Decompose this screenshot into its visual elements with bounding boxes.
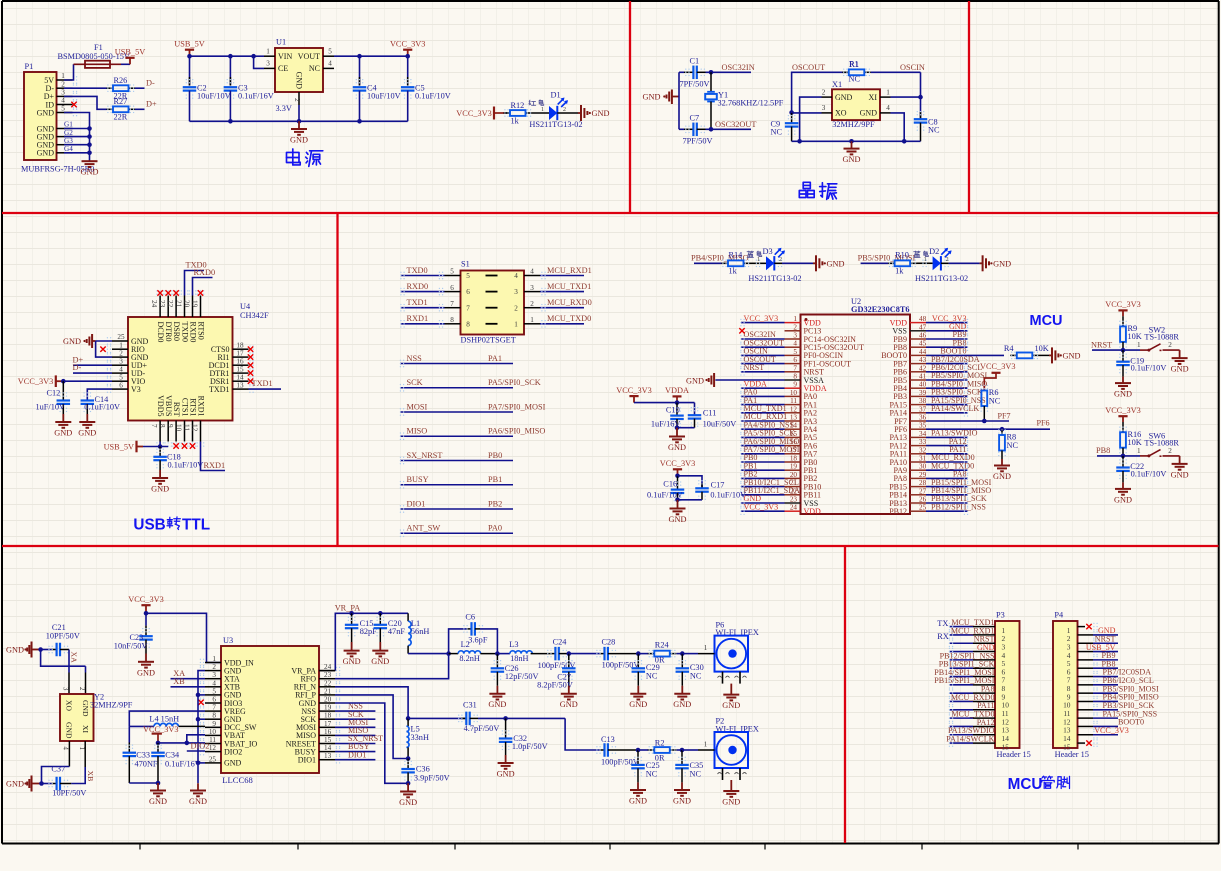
- svg-text:MCU_TXD0: MCU_TXD0: [547, 314, 591, 323]
- U3 pin 3 XTA: [205, 678, 221, 680]
- U2 pin 45 PB8: [910, 346, 926, 348]
- svg-text:12pF/50V: 12pF/50V: [505, 672, 539, 681]
- net DIO2 (U3): [187, 750, 205, 752]
- wire C33/C34 gnd: [129, 782, 158, 784]
- svg-text:VBUS: VBUS: [164, 395, 173, 416]
- svg-text:4: 4: [212, 679, 216, 687]
- net D+ (U4): [73, 364, 112, 366]
- svg-text:0.1uF/10V: 0.1uF/10V: [415, 92, 451, 101]
- resistor R6 NC body: [981, 391, 987, 407]
- MCU U2 GD32E230C8T6: [801, 315, 911, 515]
- wire C21 to Y2 XO: [68, 650, 70, 673]
- svg-text:5: 5: [466, 272, 470, 280]
- svg-text:32: 32: [919, 446, 927, 454]
- LED D2 blue HS211TG13-02: [917, 262, 933, 264]
- net PB15/SPI1_MOSI (U2 pin 28): [926, 486, 968, 488]
- wire P1 GND pins: [64, 113, 90, 161]
- svg-text:GND: GND: [137, 668, 155, 677]
- ground for C16/C17: [677, 500, 679, 509]
- svg-text:2: 2: [119, 349, 123, 357]
- net PF6 and resistor R8 NC: [926, 428, 1050, 430]
- ground for C19: [1122, 377, 1124, 384]
- U2 pin 30 PA9: [910, 469, 926, 471]
- svg-text:C33: C33: [136, 750, 150, 759]
- svg-text:MCU: MCU: [1008, 776, 1043, 793]
- svg-text:GND: GND: [860, 109, 878, 118]
- ground for R8: [1001, 459, 1003, 466]
- U3 pin 25 GND: [205, 762, 221, 764]
- svg-text:1uF/10V: 1uF/10V: [36, 403, 66, 412]
- svg-text:48: 48: [919, 315, 927, 323]
- svg-text:33nH: 33nH: [411, 733, 429, 742]
- net VCC_3V3 (U2 pin 24): [741, 510, 785, 512]
- resistor R14 1k: [722, 262, 729, 264]
- svg-text:10K: 10K: [1035, 344, 1049, 353]
- svg-text:VCC_3V3: VCC_3V3: [1105, 406, 1141, 415]
- svg-text:9: 9: [793, 381, 797, 389]
- ground for C33/C34: [157, 783, 159, 791]
- net GND (U2 pin 47): [926, 330, 968, 332]
- U2 pin 38 PA15: [910, 404, 926, 406]
- U2 pin 26 PB13: [910, 502, 926, 504]
- no-connect U2 pin2 PC13: [739, 328, 744, 333]
- capacitor C19 0.1uF/10V: [1122, 350, 1124, 361]
- U2 pin 37 PA14: [910, 412, 926, 414]
- net PA0 (U2 pin 10): [741, 395, 785, 397]
- net PB7/I2C0SDA (U2 pin 43): [926, 363, 968, 365]
- U3 pin 21 RFI_P: [319, 694, 335, 696]
- net tie MOSI - PA7/SPI0_MOSI: [400, 411, 513, 413]
- net OSC32IN (U2 pin 3): [741, 338, 785, 340]
- svg-text:G1: G1: [64, 121, 73, 129]
- svg-text:PB8: PB8: [1096, 446, 1110, 455]
- svg-text:8: 8: [466, 320, 470, 328]
- svg-text:1: 1: [704, 741, 708, 749]
- svg-text:24: 24: [790, 504, 798, 512]
- ground for R4: [1039, 354, 1049, 356]
- svg-text:GND: GND: [668, 443, 686, 452]
- svg-text:3: 3: [266, 60, 270, 68]
- svg-text:3: 3: [822, 104, 826, 112]
- svg-text:3.6pF: 3.6pF: [468, 635, 488, 644]
- svg-text:22R: 22R: [114, 113, 128, 122]
- svg-text:GND: GND: [1171, 365, 1189, 374]
- power port USB_5V (rail): [189, 50, 191, 57]
- svg-text:2: 2: [1168, 447, 1172, 455]
- svg-text:0.1uF/10V: 0.1uF/10V: [84, 403, 120, 412]
- svg-text:OSC32IN: OSC32IN: [722, 63, 755, 72]
- net OSCOUT (U2 pin 6): [741, 363, 785, 365]
- svg-text:MOSI: MOSI: [407, 402, 428, 411]
- svg-text:4: 4: [61, 97, 65, 105]
- svg-text:7: 7: [466, 304, 470, 312]
- svg-text:15: 15: [324, 736, 332, 744]
- svg-text:DSHP02TSGET: DSHP02TSGET: [461, 336, 516, 345]
- U2 pin 3 PC14-OSC32IN: [785, 338, 801, 340]
- svg-text:PB0: PB0: [488, 451, 502, 460]
- capacitor C24 100pF/50V: [551, 653, 556, 655]
- svg-text:7PF/50V: 7PF/50V: [680, 79, 710, 88]
- ground for C22: [1122, 482, 1124, 489]
- header P3 Header 15: [995, 621, 1020, 748]
- svg-text:15: 15: [1002, 742, 1010, 751]
- wire P1 D- to R26: [64, 87, 107, 89]
- svg-text:PB2: PB2: [488, 499, 502, 508]
- svg-text:17: 17: [324, 720, 332, 728]
- svg-text:G2: G2: [64, 129, 73, 137]
- svg-text:2: 2: [514, 304, 518, 312]
- svg-text:GND: GND: [488, 700, 506, 709]
- svg-text:GND: GND: [6, 780, 24, 789]
- no-connect marks U4 top pins: [157, 290, 162, 295]
- svg-text:8.2nH: 8.2nH: [459, 654, 480, 663]
- U1 GND pin: [298, 92, 300, 105]
- net OSCIN (U2 pin 5): [741, 354, 785, 356]
- ground for C18: [159, 470, 161, 478]
- svg-text:U1: U1: [276, 38, 286, 47]
- svg-text:PB12: PB12: [889, 507, 907, 516]
- U3 pin 6 DIO3: [205, 702, 221, 704]
- U2 pin 35 PF6: [910, 428, 926, 430]
- ground for VDDA filter: [676, 428, 678, 437]
- U2 pin 16 PA6: [785, 445, 801, 447]
- svg-text:19: 19: [790, 463, 798, 471]
- U2 pin 44 BOOT0: [910, 354, 926, 356]
- power port VCC_3V3 (C16/C17): [677, 469, 679, 476]
- svg-text:1: 1: [61, 72, 65, 80]
- svg-text:VCC_3V3: VCC_3V3: [744, 314, 779, 323]
- U2 pin 31 PA10: [910, 461, 926, 463]
- svg-text:3.9pF/50V: 3.9pF/50V: [414, 773, 450, 782]
- ground for U2 VSSA: [715, 379, 784, 381]
- svg-text:D2: D2: [929, 247, 939, 256]
- ground for P1: [89, 160, 91, 163]
- svg-text:D3: D3: [763, 247, 773, 256]
- U3 pin 23 RFO: [319, 678, 335, 680]
- svg-text:PA6/SPI0_MISO: PA6/SPI0_MISO: [488, 427, 545, 436]
- wire VBAT/VBAT_IO: [158, 742, 205, 744]
- svg-text:GND: GND: [295, 72, 304, 90]
- svg-text:NC: NC: [646, 671, 658, 680]
- resistor R27 22R: [107, 108, 114, 110]
- svg-text:NC: NC: [849, 74, 861, 83]
- net VCC_3V3 (U2 pin 48): [926, 322, 968, 324]
- net VDDA (U2 pin 9): [741, 387, 785, 389]
- ground for C14: [86, 414, 88, 422]
- capacitor C33 470NF: [128, 726, 130, 742]
- net XB (U3): [171, 686, 206, 688]
- svg-text:GND: GND: [669, 515, 687, 524]
- svg-text:8: 8: [212, 712, 216, 720]
- svg-text:VOUT: VOUT: [298, 52, 320, 61]
- svg-text:XI: XI: [81, 725, 90, 733]
- svg-text:GND: GND: [151, 485, 169, 494]
- U2 pin 21 PB10: [785, 486, 801, 488]
- svg-text:BOOT0: BOOT0: [940, 347, 966, 356]
- svg-text:6: 6: [793, 356, 797, 364]
- no-connect marks U4 right pins: [248, 347, 253, 352]
- svg-text:TTL: TTL: [182, 517, 210, 534]
- svg-text:F1: F1: [94, 43, 103, 52]
- svg-text:R12: R12: [511, 101, 525, 110]
- svg-text:28: 28: [919, 479, 927, 487]
- capacitor C5 0.1uF/10V: [407, 56, 409, 85]
- svg-text:1: 1: [757, 257, 760, 263]
- svg-text:32.768KHZ/12.5PF: 32.768KHZ/12.5PF: [718, 98, 784, 107]
- resistor R4 10K: [1010, 354, 1017, 356]
- svg-text:39: 39: [919, 389, 927, 397]
- net PB6/I2C0_SCL (U2 pin 42): [926, 371, 968, 373]
- svg-text:10uF/50V: 10uF/50V: [703, 420, 737, 429]
- net tie SX_NRST - PB0: [400, 460, 513, 462]
- U2 pin 32 PA11: [910, 453, 926, 455]
- U2 pin 2 PC13: [785, 330, 801, 332]
- svg-text:C24: C24: [553, 638, 568, 647]
- svg-text:GND: GND: [1171, 470, 1189, 479]
- svg-text:4: 4: [62, 747, 69, 751]
- svg-text:2: 2: [793, 323, 797, 331]
- svg-text:PF6: PF6: [1037, 419, 1050, 428]
- U2 pin 25 PB12: [910, 510, 926, 512]
- net PB4/SPI0_MISO: [694, 262, 722, 264]
- svg-text:16: 16: [236, 357, 244, 365]
- svg-text:9: 9: [212, 720, 216, 728]
- U3 pin 24 VR_PA: [319, 670, 335, 672]
- svg-text:4: 4: [530, 268, 534, 276]
- svg-text:MCU: MCU: [1030, 313, 1063, 329]
- no-connect U4 pin1: [100, 347, 105, 352]
- net tie BUSY - PB1: [400, 484, 513, 486]
- svg-text:17: 17: [236, 349, 244, 357]
- svg-text:4: 4: [886, 104, 890, 112]
- U2 pin 22 PB11: [785, 494, 801, 496]
- svg-text:18: 18: [236, 341, 244, 349]
- net PB11/I2C1_SDA (U2 pin 22): [741, 494, 785, 496]
- U2 pin 29 PA8: [910, 477, 926, 479]
- P3 pin 6 PB13/SPI1_SCK: [950, 667, 974, 669]
- svg-text:GND: GND: [65, 722, 74, 739]
- svg-text:PB12/SPI1_NSS: PB12/SPI1_NSS: [931, 502, 986, 511]
- capacitor C36 3.9pF/50V: [406, 756, 411, 761]
- P3 pin 4 GND: [950, 651, 974, 653]
- P3 pin 13 PA12: [950, 725, 974, 727]
- capacitor C4 10uF/10V: [359, 56, 361, 85]
- net PA11 (U2 pin 32): [926, 453, 968, 455]
- U2 pin 28 PB15: [910, 486, 926, 488]
- wire 32k left rail: [678, 72, 680, 129]
- net tie SCK - PA5/SPI0_SCK: [400, 387, 513, 389]
- net TXD0 (U4): [185, 271, 205, 296]
- power port VCC_3V3 (U4 VIO): [55, 375, 57, 387]
- bottom rail: [190, 120, 408, 122]
- svg-text:7: 7: [212, 704, 216, 712]
- svg-text:15: 15: [236, 365, 244, 373]
- svg-text:3: 3: [530, 284, 534, 292]
- wire R12 to D1: [532, 112, 549, 114]
- crystal Y1 32.768KHZ: [710, 72, 712, 91]
- svg-text:1: 1: [514, 320, 518, 328]
- svg-text:4: 4: [793, 340, 797, 348]
- svg-text:RTS1: RTS1: [188, 398, 197, 416]
- svg-text:0.1uF/10V: 0.1uF/10V: [1131, 470, 1167, 479]
- svg-text:1: 1: [886, 88, 890, 96]
- net NSS (U3): [335, 710, 375, 712]
- wire X1 pin4 to gnd rail: [891, 113, 905, 141]
- U2 pin 36 PF7: [910, 420, 926, 422]
- U3 pin 5 GND: [205, 694, 221, 696]
- U2 pin 41 PB5: [910, 379, 926, 381]
- svg-text:XO: XO: [835, 109, 847, 118]
- net PB3/SPI0_SCK (U2 pin 39): [926, 395, 968, 397]
- svg-text:29: 29: [919, 471, 927, 479]
- svg-text:PA5/SPI0_SCK: PA5/SPI0_SCK: [488, 378, 541, 387]
- svg-text:GND: GND: [6, 646, 24, 655]
- svg-text:RXD1: RXD1: [204, 461, 226, 470]
- svg-text:GND: GND: [686, 376, 704, 385]
- U2 pin 34 PA13: [910, 436, 926, 438]
- svg-text:R10: R10: [895, 250, 909, 259]
- net PB8 (U2 pin 45): [926, 346, 968, 348]
- svg-text:GND: GND: [592, 109, 610, 118]
- U2 pin 13 PA3: [785, 420, 801, 422]
- svg-text:0.1uF/10V: 0.1uF/10V: [168, 461, 204, 470]
- svg-text:2: 2: [212, 663, 216, 671]
- svg-text:L4 15nH: L4 15nH: [149, 715, 179, 724]
- svg-text:R2: R2: [655, 738, 665, 747]
- net NRST: [1092, 349, 1123, 351]
- svg-text:3: 3: [62, 687, 69, 691]
- net PB5/SPI0_MOSI: [861, 262, 889, 264]
- U3 pin 12 DIO2: [205, 751, 221, 753]
- U3 pin 8 GND: [205, 718, 221, 720]
- svg-text:TXD1: TXD1: [209, 385, 229, 394]
- svg-text:GND: GND: [497, 770, 515, 779]
- U3 pin 19 NSS: [319, 710, 335, 712]
- P3 pin 11 PA11: [950, 709, 974, 711]
- svg-text:1: 1: [266, 47, 270, 55]
- net MCU_RXD0 (U2 pin 31): [926, 461, 968, 463]
- svg-text:USB_5V: USB_5V: [174, 40, 204, 49]
- title 晶振 (Crystal): [803, 182, 810, 188]
- LED D3 blue HS211TG13-02: [750, 262, 766, 264]
- svg-text:3: 3: [61, 89, 65, 97]
- power port VCC_3V3 (VBAT): [152, 732, 162, 734]
- U3 pin 4 XTB: [205, 686, 221, 688]
- ground for D1: [578, 112, 581, 114]
- svg-text:DIO2: DIO2: [191, 741, 210, 750]
- power port USB_5V (P1): [129, 58, 131, 65]
- capacitor C22 0.1uF/10V: [1122, 456, 1124, 467]
- svg-text:TS-1088R: TS-1088R: [1144, 438, 1179, 447]
- svg-text:GND: GND: [343, 657, 361, 666]
- svg-text:GD32E230C8T6: GD32E230C8T6: [851, 305, 910, 314]
- ground for D3: [813, 262, 816, 264]
- svg-text:C17: C17: [711, 481, 725, 490]
- net PA4/SPI0_NSS (U2 pin 14): [741, 428, 785, 430]
- svg-text:GND: GND: [827, 259, 845, 268]
- svg-text:40: 40: [919, 381, 927, 389]
- wire VDDA filter gnd: [677, 427, 695, 429]
- capacitor C11 10uF/50V: [694, 403, 696, 415]
- svg-text:5: 5: [212, 687, 216, 695]
- resistor R26 22R: [107, 87, 114, 89]
- svg-text:16: 16: [324, 728, 332, 736]
- U2 pin 24 VDD: [785, 510, 801, 512]
- svg-text:10uF/10V: 10uF/10V: [367, 92, 401, 101]
- net PB10/I2C1_SCL (U2 pin 21): [741, 486, 785, 488]
- svg-text:24: 24: [150, 300, 158, 308]
- svg-text:TXD1: TXD1: [252, 379, 273, 388]
- svg-text:8.2pF/50V: 8.2pF/50V: [537, 681, 573, 690]
- P3 pin 1 MCU_TXD1: [950, 626, 974, 628]
- P3 pin 10 MCU_RXD0: [950, 700, 974, 702]
- U3 pin 11 VBAT_IO: [205, 743, 221, 745]
- svg-text:GND: GND: [1114, 390, 1132, 399]
- inductor L5 33nH: [407, 718, 409, 726]
- svg-text:TS-1088R: TS-1088R: [1144, 333, 1179, 342]
- svg-text:NC: NC: [690, 770, 702, 779]
- ground for P6: [730, 684, 732, 695]
- svg-text:25: 25: [209, 755, 217, 763]
- svg-text:2: 2: [530, 300, 534, 308]
- svg-text:GND: GND: [673, 797, 691, 806]
- ground for SW2: [1179, 350, 1181, 358]
- wire RFO to node A: [335, 654, 449, 679]
- svg-text:VIN: VIN: [278, 52, 292, 61]
- svg-text:0.1uF/16V: 0.1uF/16V: [165, 760, 201, 769]
- capacitor C18 0.1uF/10V: [159, 447, 161, 457]
- wire D1 to GND: [557, 112, 578, 114]
- svg-text:TXD1: TXD1: [407, 298, 428, 307]
- svg-text:DIO1: DIO1: [407, 499, 426, 508]
- svg-text:R14: R14: [729, 250, 744, 259]
- net BUSY (U3): [335, 751, 375, 753]
- U2 pin 17 PA7: [785, 453, 801, 455]
- wire P1 pin1 to fuse: [64, 64, 74, 80]
- U3 pin 2 GND: [205, 670, 221, 672]
- svg-text:C36: C36: [416, 765, 430, 774]
- wire C37 to Y2 XI: [71, 767, 85, 784]
- svg-text:USB_5V: USB_5V: [115, 48, 145, 57]
- svg-text:GND: GND: [1063, 351, 1081, 360]
- svg-text:GND: GND: [81, 168, 99, 177]
- ground for C30: [681, 686, 683, 694]
- svg-text:3: 3: [514, 288, 518, 296]
- capacitor C23 10nF/50V: [145, 613, 147, 625]
- wire row2 jog down: [565, 718, 599, 750]
- svg-text:RX: RX: [937, 632, 949, 641]
- svg-text:GND: GND: [78, 429, 96, 438]
- ground for C32: [505, 755, 507, 763]
- svg-text:GND: GND: [54, 429, 72, 438]
- svg-text:VCC_3V3: VCC_3V3: [1105, 300, 1141, 309]
- svg-text:MCU_RXD0: MCU_RXD0: [547, 298, 592, 307]
- capacitor C35 NC: [677, 749, 683, 751]
- svg-text:BUSY: BUSY: [407, 475, 429, 484]
- svg-text:2: 2: [946, 257, 949, 263]
- U2 pin 27 PB14: [910, 494, 926, 496]
- svg-text:HS211TG13-02: HS211TG13-02: [529, 120, 582, 129]
- chip U3 LLCC68: [221, 646, 319, 773]
- net PB13/SPI1_SCK (U2 pin 26): [926, 502, 968, 504]
- svg-text:DIO1: DIO1: [298, 756, 316, 765]
- svg-text:RXD0: RXD0: [188, 322, 197, 343]
- svg-text:0R: 0R: [655, 754, 665, 763]
- svg-text:1: 1: [541, 107, 544, 113]
- svg-text:VCC_3V3: VCC_3V3: [18, 377, 54, 386]
- svg-text:GND: GND: [399, 798, 417, 807]
- svg-text:2: 2: [822, 88, 826, 96]
